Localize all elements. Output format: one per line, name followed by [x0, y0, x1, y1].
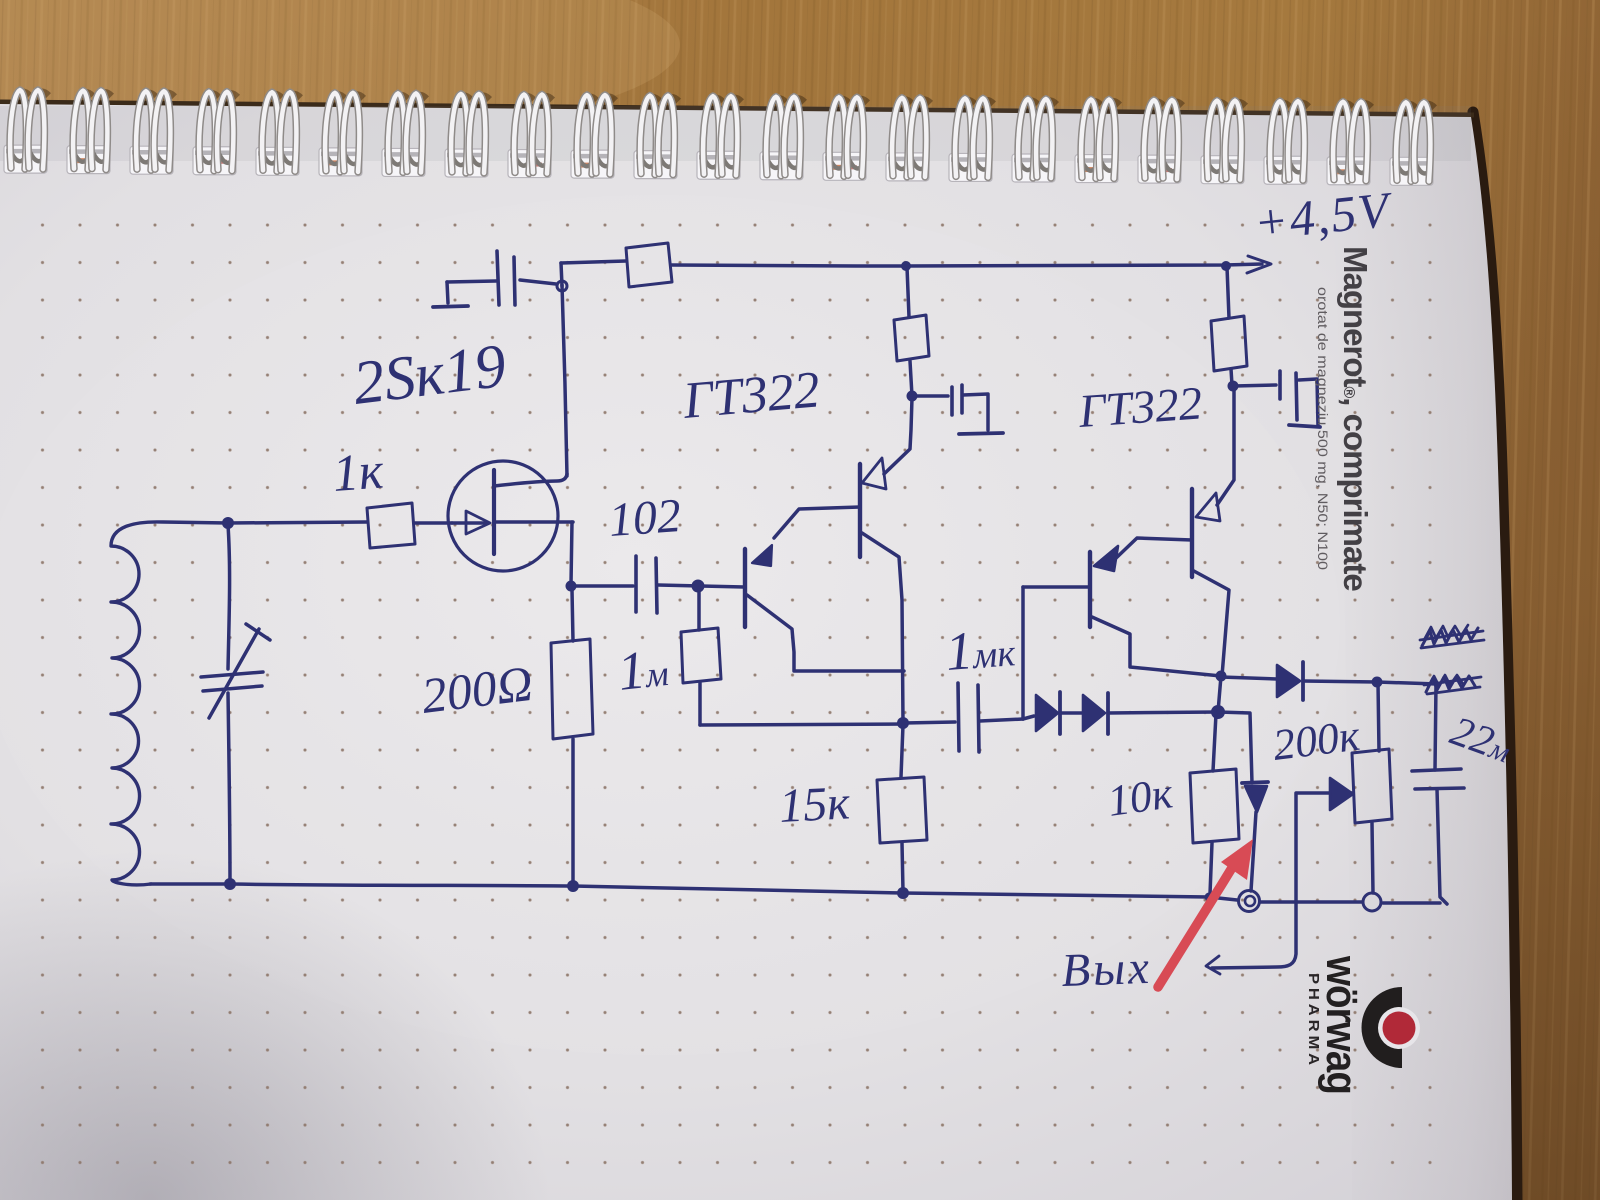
- diode D1: [1036, 692, 1060, 734]
- capacitor C6: [1234, 371, 1297, 420]
- wire: Q2 collector: [747, 595, 904, 671]
- capacitor C5 1uF: [904, 683, 1023, 752]
- node: rail junction R5: [901, 261, 911, 271]
- wire: emitter node down to Q3 emitter: [884, 398, 912, 474]
- svg-text:ГТ322: ГТ322: [1076, 377, 1204, 438]
- svg-text:1к: 1к: [331, 443, 386, 503]
- wire: tank top to gate node: [228, 522, 367, 523]
- capacitor C3 102: [573, 556, 657, 613]
- transistor Q3 bar: [858, 464, 862, 557]
- diode D5 with wire to Vyh: [1297, 778, 1353, 810]
- svg-text:wörwag: wörwag: [1317, 955, 1366, 1094]
- wire: to D3: [1221, 677, 1277, 679]
- resistor R6 15k: [877, 725, 927, 891]
- ground for C6: [1289, 379, 1320, 427]
- node A junction tank-top: [222, 517, 234, 529]
- node: collectors junction: [1216, 671, 1227, 682]
- logo mark red ball: [1383, 1012, 1416, 1045]
- diode D4: [1242, 782, 1268, 812]
- node: drain junction knot: [557, 281, 567, 291]
- resistor R10 200k: [1352, 683, 1392, 893]
- svg-text:102: 102: [607, 489, 683, 547]
- inductor L1: [111, 522, 228, 885]
- wire: rail continues to +4,5V: [672, 264, 1262, 266]
- spiral wire binding: [4, 90, 48, 173]
- scribbled label 2 (crossed out): [1424, 675, 1481, 694]
- variable capacitor C1: [201, 525, 270, 884]
- node: 15k bottom rail junction: [897, 887, 909, 899]
- transistor Q4 bar: [1190, 489, 1194, 577]
- svg-text:PHARMA: PHARMA: [1305, 973, 1322, 1069]
- capacitor C4 (emitter bypass): [912, 385, 962, 415]
- resistor R8 10k: [1190, 714, 1239, 894]
- resistor R7: [1211, 267, 1247, 385]
- wire: D2 to output node: [1108, 712, 1218, 713]
- svg-text:15к: 15к: [778, 776, 852, 833]
- wire: output junction to 22uF: [1377, 682, 1437, 684]
- wire: Q3 base to Q2 emitter: [774, 507, 860, 538]
- annotation: red arrow: [1158, 839, 1253, 987]
- node: output junction: [1372, 677, 1383, 688]
- wire: Vyh output lead: [1212, 793, 1296, 968]
- resistor R5 (collector load): [894, 315, 929, 361]
- ground for C4: [959, 394, 1003, 434]
- capacitor C7 22uF: [1412, 684, 1464, 904]
- transistor Q1 JFET 2SK19: [448, 461, 573, 571]
- wire: Q2 base from C3 node: [658, 585, 744, 587]
- transistor Q3 GT322 emitter arrow: [862, 458, 886, 489]
- resistor R1 1k: [367, 503, 415, 548]
- node: rail junction at 200ohm: [567, 880, 579, 892]
- logo mark half-disk: [1362, 987, 1403, 1068]
- page lighting: [0, 195, 1340, 1055]
- node: rail junction right: [1221, 261, 1231, 271]
- svg-text:10к: 10к: [1105, 768, 1176, 826]
- wire: bottom rail: [150, 884, 1440, 903]
- wire: top rail: [561, 261, 626, 263]
- node: 10k rail dot: [1205, 893, 1214, 902]
- node: emitter junction: [907, 391, 918, 402]
- resistor R3 200ohm: [551, 590, 593, 884]
- node: output terminal double circle: [1239, 891, 1260, 912]
- wire: output node branch down to D4: [1218, 712, 1252, 783]
- power arrow +4,5V: [1247, 256, 1271, 273]
- transistor Q5 bar: [1088, 552, 1092, 627]
- wire: junction to diode row node: [1218, 676, 1221, 712]
- diode D3: [1277, 662, 1303, 700]
- wire: Q5 collector: [1092, 617, 1221, 676]
- wire: Q5 base: [1023, 585, 1090, 589]
- wire: R5 to emitter node: [910, 361, 912, 396]
- wire: Q4 emitter up to R7: [1217, 387, 1234, 505]
- wire: C5 to D1: [1023, 716, 1034, 719]
- node: base junction: [692, 580, 705, 593]
- wire: Q5 base vertical: [1021, 587, 1025, 719]
- transistor Q2 emitter arrow: [752, 545, 772, 566]
- wire: D1 to D2: [1060, 711, 1083, 715]
- transistor Q5 emitter arrow: [1094, 546, 1118, 571]
- arrow: Vyh lead end: [1206, 956, 1220, 974]
- svg-text:Вых: Вых: [1061, 942, 1153, 997]
- wire: Q4 collector: [1192, 570, 1229, 676]
- svg-text:orotat de magneziu 500 mg, N50: orotat de magneziu 500 mg, N50; N100: [1315, 287, 1330, 570]
- resistor R2 (fuse-box on rail): [626, 243, 672, 287]
- node: R7 bottom junction: [1228, 381, 1239, 392]
- capacitor C2 (drain bypass): [447, 251, 556, 305]
- scribbled label (crossed out): [1420, 625, 1484, 648]
- wire: rail to R5: [907, 267, 909, 317]
- resistor R4 1M: [681, 588, 721, 725]
- notebook page top edge line: [0, 102, 1474, 115]
- node: tank bottom junction: [224, 878, 236, 890]
- wire: JFET source down: [571, 522, 572, 584]
- dot grid: [20, 208, 1465, 1193]
- ground for C2: [433, 282, 468, 307]
- wire: D3 to output junction: [1303, 681, 1377, 682]
- node: diode row junction: [1211, 705, 1225, 719]
- svg-text:Magnerot®, comprimate: Magnerot®, comprimate: [1337, 246, 1374, 591]
- node: source junction: [566, 581, 577, 592]
- wire: R1 to JFET gate: [415, 521, 452, 525]
- transistor Q2 bar: [743, 549, 747, 627]
- transistor Q4 emitter arrow: [1196, 493, 1220, 521]
- diode D2: [1083, 693, 1108, 734]
- wire: JFET drain up: [562, 285, 567, 476]
- wire: Q5 emitter to Q4 base: [1114, 538, 1192, 560]
- wire: R4 bottom to C5 node: [700, 724, 904, 725]
- wire: D4 to output terminal: [1251, 812, 1256, 891]
- node: 200k bottom terminal circle: [1363, 893, 1381, 911]
- wire: riser to top rail: [561, 263, 562, 286]
- node: collector/C5 junction: [897, 717, 909, 729]
- notebook page right edge shadow: [1473, 112, 1517, 1200]
- svg-text:ГТ322: ГТ322: [680, 361, 822, 430]
- wire: Q3 collector: [862, 533, 903, 722]
